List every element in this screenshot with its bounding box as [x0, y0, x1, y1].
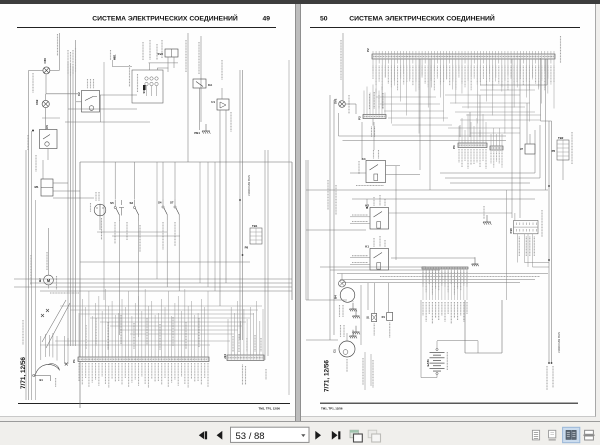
flasher unit E1: [94, 204, 106, 216]
wire drop 547: [546, 59, 548, 85]
wire right bus B: [267, 150, 269, 356]
wire left bus upper: [28, 70, 30, 150]
wire left bus 3: [35, 200, 37, 400]
wire M1 to flasher: [53, 197, 94, 199]
wire S5 up: [114, 162, 116, 199]
J1939 CAN bus pair: [240, 70, 243, 340]
page 50 footer rule: [320, 402, 578, 404]
ground W4: [352, 326, 360, 335]
J14 riser labels: [233, 334, 261, 352]
engine enclosure box: [465, 300, 502, 353]
staircase buses to P1: [60, 306, 262, 334]
diode module U1: [211, 99, 229, 110]
wire B2 up: [48, 228, 50, 275]
wire battery plus drop: [477, 341, 479, 353]
left bus labels: [23, 73, 33, 345]
riser 188 label: [185, 40, 187, 72]
ground W1 label: [483, 206, 485, 219]
K2b wire label 1: [352, 214, 368, 216]
wire riser 343: [342, 33, 344, 100]
connector P10: [509, 221, 538, 234]
connector SV2: [158, 49, 178, 57]
ground W2: [472, 258, 479, 266]
wire riser 188: [187, 33, 189, 162]
alternator terminal circle: [339, 280, 346, 287]
wire B2 down stub: [48, 285, 50, 289]
wire left bus R2: [333, 100, 335, 335]
ground W3: [352, 310, 360, 319]
C1 bottom label: [346, 359, 348, 372]
wire battery minus: [421, 377, 437, 379]
wire starter down A: [364, 352, 366, 390]
connector J14: [227, 301, 264, 361]
wire P10 bend 1: [525, 262, 550, 264]
left bus R labels: [328, 180, 336, 215]
CAN junction E: [548, 362, 550, 364]
flasher labels: [91, 192, 100, 212]
bus y267: [320, 266, 426, 268]
horizontal bus group: [14, 262, 292, 291]
wire bend 547: [480, 84, 547, 86]
svg-text:53 / 88: 53 / 88: [236, 431, 265, 442]
wire bus under SV1: [65, 121, 150, 123]
enclosure bottom y136: [339, 135, 507, 137]
wire K4 left feed: [350, 172, 366, 174]
wire mid v215: [214, 162, 216, 291]
wire left bus 2: [28, 150, 30, 400]
pushbutton S6: [119, 200, 124, 216]
connector P3: [363, 85, 386, 119]
wire x-end 2: [67, 338, 69, 364]
page separator: [295, 4, 301, 422]
P10 drop wires: [518, 234, 535, 267]
K2 top labels: [88, 79, 94, 89]
engine bus wires: [337, 274, 548, 283]
wire feed y341: [55, 340, 230, 342]
glow plug resistor R1: [382, 313, 393, 321]
wire into SV1: [148, 63, 150, 70]
bus y270: [330, 269, 440, 271]
wire K4 right 1: [386, 165, 401, 167]
inline wire label: [380, 276, 540, 278]
wire mid v208: [207, 162, 209, 287]
wire P3 down2: [373, 122, 375, 150]
wire S7 up: [174, 162, 176, 199]
wire riser 201: [200, 36, 202, 122]
P3 bottom label: [372, 127, 375, 138]
wire K1 left 1: [350, 257, 370, 259]
wire K5 left drop: [31, 131, 33, 400]
wire U1 up: [221, 88, 223, 99]
wire C62 to bundle: [46, 93, 78, 95]
SV1 top labels: [143, 40, 162, 60]
wire S1 up: [374, 283, 376, 314]
wire K2b left 1: [350, 216, 370, 218]
riser 201 label: [198, 42, 200, 74]
bus staircase under P2: [376, 90, 541, 133]
first page button: [199, 431, 207, 439]
connector P9: [422, 267, 468, 295]
horn feed wires: [41, 333, 57, 361]
wire P3 down: [372, 119, 374, 126]
K1 top labels: [374, 236, 385, 247]
wire C62 down to K5: [45, 108, 47, 130]
wire link y236: [112, 235, 180, 237]
J14 lower labels: [243, 365, 267, 386]
enclosure edge v338: [338, 113, 340, 136]
P2 right label: [560, 36, 562, 63]
wire K2b right to P10: [389, 212, 513, 214]
wire SV1 top2: [156, 68, 158, 70]
wire K1 right to ground W2: [391, 257, 475, 259]
wire starter down B: [370, 354, 372, 386]
wire TB2 down: [562, 160, 564, 180]
connector J7: [520, 134, 535, 154]
wire vertical 396: [395, 166, 397, 260]
wire right margin bus: [288, 60, 290, 395]
bundle wire labels: [68, 48, 76, 76]
wire K2b left 2: [350, 222, 370, 224]
relay K4: [362, 157, 386, 183]
wire lamp down: [355, 104, 357, 114]
relay K1: [365, 245, 388, 271]
wire flasher down: [99, 216, 101, 230]
stub W3: [352, 301, 354, 302]
ground W1: [483, 215, 491, 225]
B2 side label: [56, 276, 58, 290]
wire left bus 1: [25, 150, 27, 400]
next view button (disabled): [368, 430, 380, 442]
K4 bottom label row: [356, 185, 384, 187]
wire right bus A: [264, 150, 266, 360]
toolbar background: [0, 422, 600, 445]
wire riser from C60: [58, 33, 60, 70]
K2b top labels: [374, 195, 385, 206]
enclosure edge 506: [506, 190, 508, 300]
single page icon: [549, 430, 556, 440]
P10 right label: [541, 210, 543, 237]
console enclosure boundary: [80, 162, 292, 408]
wire K2b top drop: [366, 199, 368, 208]
R1 bottom label: [389, 323, 391, 339]
B2 wire label: [46, 252, 48, 270]
wire C60 right: [50, 69, 60, 71]
wire S5 down: [118, 220, 120, 335]
wire P10 top feed: [514, 213, 516, 221]
junction K2b top: [366, 207, 368, 209]
wire left bus R1: [329, 95, 331, 340]
wire P10 bend 2: [533, 266, 550, 268]
TB2 side label: [571, 132, 573, 164]
K1 wire label 2: [352, 262, 368, 264]
ground W3 labels: [340, 305, 344, 317]
wire K2 to SV1: [100, 94, 138, 96]
page 49 footer rule: [18, 403, 290, 405]
wire K2 left: [76, 101, 82, 103]
wire K5 down: [47, 149, 49, 161]
K2b wire label 2: [352, 221, 368, 223]
wire x-end 1: [64, 336, 66, 364]
last page button: [332, 431, 341, 440]
B2 bottom label row: [50, 292, 80, 294]
next page button: [315, 431, 321, 440]
K4 left wire label: [358, 161, 360, 174]
wire long drop 430: [429, 59, 431, 190]
wire drop to P10: [511, 59, 513, 218]
riser 343 label: [340, 40, 342, 80]
CAN junction B: [242, 254, 244, 256]
wire KA down: [199, 88, 201, 130]
previous view button (disabled): [350, 430, 362, 442]
wire long drop 545: [545, 59, 547, 190]
blower motor B2: [38, 275, 54, 285]
wire U1 down L: [219, 110, 221, 306]
wire battery minus riser: [420, 300, 422, 378]
battery BAT1: [426, 348, 445, 374]
switch S4: [158, 199, 167, 220]
lamp C62: [42, 100, 49, 107]
wire HB1 to SV1: [113, 66, 133, 68]
wire S3 up: [134, 162, 136, 199]
page number input box: [231, 427, 310, 442]
starter motor C1: [333, 341, 356, 357]
connector P1: [78, 289, 209, 388]
wire S4 down: [166, 220, 168, 287]
bus y230: [306, 229, 366, 231]
SV1 left labels: [130, 65, 138, 92]
horn area label: [55, 378, 57, 387]
wire SV2 down 1: [167, 57, 169, 72]
wire far-left R: [307, 160, 309, 300]
wire U1 down R: [225, 110, 227, 283]
wire to P4 b: [469, 112, 471, 137]
P9 drop wires: [423, 269, 467, 324]
wire C1 up: [346, 333, 348, 341]
wire mid v157: [156, 162, 158, 279]
relay K2b: [365, 204, 388, 230]
wire S7 down: [178, 220, 180, 291]
lamp SV3 labels: [348, 95, 350, 114]
S1 bottom label: [373, 324, 375, 337]
wire S3 down: [138, 220, 140, 337]
horn B1: [33, 364, 60, 382]
wire K1 left 2: [350, 263, 370, 265]
CAN end labels: [547, 366, 553, 390]
terminal block TB1 / P8: [245, 224, 262, 250]
splice X marks: [41, 309, 49, 317]
wire battery plus: [437, 340, 478, 342]
page 50 sheet: [301, 4, 596, 418]
J1939 CAN bus pair (page 50): [549, 121, 552, 363]
switch S3: [129, 200, 138, 221]
relay K5: [40, 125, 58, 149]
junction near K5: [32, 130, 34, 132]
relay KA: [193, 79, 213, 88]
wire over K5: [42, 117, 60, 119]
enclosure top y140: [343, 140, 507, 142]
K4 top labels: [374, 150, 379, 159]
CAN junction A: [239, 199, 241, 201]
wire to G1 top: [306, 299, 347, 301]
previous page button: [217, 431, 223, 440]
connector P5: [490, 128, 503, 168]
K1 wire label 1: [352, 255, 368, 257]
two page view icon (active): [563, 427, 580, 442]
wire S4 up: [162, 162, 164, 199]
wire C60 left to bus: [29, 69, 43, 71]
switch S5: [110, 200, 119, 221]
switch wire labels: [115, 222, 175, 252]
wire C60-C62: [45, 75, 47, 95]
engine box top edge: [541, 120, 552, 122]
P3 riser labels: [370, 92, 384, 109]
wire to P4: [459, 125, 461, 137]
riser label: [57, 34, 59, 56]
wire drop 540: [540, 58, 542, 121]
lamp SV3: [339, 101, 346, 108]
wire v361: [360, 285, 362, 345]
wire SV2 down 2: [173, 57, 175, 68]
ground W4 labels: [341, 325, 345, 337]
bus y199: [352, 198, 535, 200]
wire bundle extra: [103, 62, 105, 300]
HB1 wire label: [110, 50, 112, 60]
lamp C60: [43, 67, 50, 74]
wire M1 r2: [53, 190, 80, 192]
starter lower labels: [363, 358, 373, 388]
CAN junction D: [548, 259, 550, 261]
page 49 sheet: [0, 4, 295, 418]
flasher bottom labels: [101, 218, 103, 240]
wire bus y109: [68, 108, 137, 110]
viewer top bar: [0, 0, 600, 4]
wire to P4 c: [479, 95, 481, 137]
wire far left down: [305, 160, 307, 300]
connector P4: [458, 114, 487, 169]
wire long drop 420: [419, 59, 421, 170]
ground PB1: [202, 124, 210, 134]
wire R1 up: [388, 283, 390, 313]
switch S7: [170, 199, 179, 220]
wire HB1 drop: [112, 60, 114, 67]
wire SV1 bend: [157, 67, 168, 69]
relay K2: [77, 91, 100, 113]
key switch relay S1: [366, 314, 376, 322]
wire P3 to K4: [361, 122, 363, 160]
solenoid valve block SV1: [132, 70, 163, 103]
wire K4 right 2: [386, 173, 421, 175]
wire battery top: [436, 341, 438, 348]
wire drop to J7: [526, 103, 528, 144]
alternator B4: [334, 288, 355, 303]
harness bundle wires: [68, 40, 76, 346]
CAN junction F: [551, 362, 553, 364]
ground W3: [349, 303, 357, 312]
wire K2 right down: [100, 95, 102, 122]
CAN junction C: [548, 185, 550, 187]
wire to M1: [42, 160, 44, 179]
wire feed y345: [40, 344, 210, 346]
connector P2 (controller): [372, 51, 555, 134]
two page continuous icon: [583, 430, 595, 440]
diagonal feed wires: [42, 300, 70, 348]
battery side label: [446, 352, 448, 370]
ground W4: [349, 330, 357, 339]
toolbar divider: [0, 421, 600, 423]
wire link y232: [97, 231, 167, 233]
page 49 header rule: [17, 27, 276, 29]
bus group upper right: [440, 125, 540, 183]
wire battery bottom: [436, 375, 438, 378]
terminal block TB2 / P6: [552, 136, 569, 160]
splice X at 66,364: [65, 363, 68, 366]
U1 area labels: [222, 60, 231, 132]
wire v368: [367, 283, 369, 310]
wire C62 up jog: [45, 94, 47, 100]
bus y190: [306, 189, 548, 191]
P1 riser labels: [86, 315, 199, 350]
wire to C1: [306, 339, 338, 341]
wire mid v200: [199, 162, 201, 283]
wire alternator up: [341, 274, 343, 281]
wire over SV1: [149, 62, 179, 64]
connector M1: [34, 179, 53, 196]
page 50 header rule: [310, 27, 580, 29]
wire M1 r1: [53, 182, 68, 184]
wire lamp right: [346, 103, 356, 105]
stub W2: [474, 257, 476, 258]
wire drop to P10 b: [519, 59, 521, 218]
single page continuous icon: [532, 430, 539, 440]
K5 area labels: [28, 135, 36, 172]
